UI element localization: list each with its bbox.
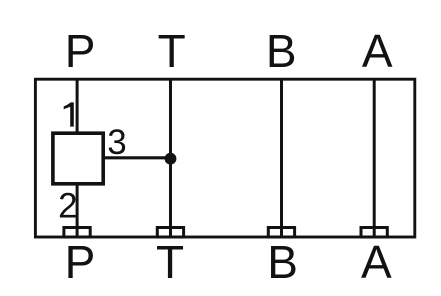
wire P line upper segment — [76, 80, 79, 134]
wire P line lower segment — [76, 185, 79, 238]
wire A line — [373, 80, 376, 238]
valve body outline — [35, 79, 414, 237]
svg-text:A: A — [361, 236, 392, 288]
component box (valve element) — [53, 133, 103, 184]
wire T line — [169, 80, 172, 238]
svg-text:B: B — [266, 25, 297, 77]
svg-text:T: T — [158, 25, 186, 77]
label pin 1 — [64, 102, 74, 126]
svg-text:B: B — [267, 236, 298, 288]
svg-text:A: A — [362, 25, 393, 77]
svg-text:3: 3 — [107, 123, 126, 162]
wire B line — [280, 80, 283, 238]
wire from box port 3 to T line — [103, 156, 171, 159]
port connector A — [361, 228, 387, 238]
svg-text:P: P — [65, 25, 96, 77]
svg-text:P: P — [65, 236, 96, 288]
junction dot on T line — [165, 153, 177, 165]
port connector T — [157, 228, 183, 238]
port connector P — [64, 228, 90, 238]
svg-text:T: T — [156, 236, 184, 288]
port connector B — [268, 228, 294, 238]
svg-text:2: 2 — [58, 186, 77, 225]
